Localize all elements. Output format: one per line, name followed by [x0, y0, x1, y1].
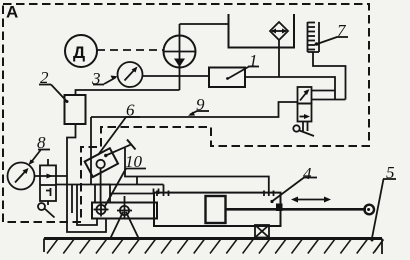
stylus 6 tilted box	[85, 140, 136, 178]
wire rect2 bottom down	[67, 124, 106, 232]
leader 9	[197, 110, 210, 112]
pivot with support	[117, 196, 132, 219]
wire to cylinder left port	[163, 185, 165, 197]
wire rect2 top to pump line	[76, 90, 180, 95]
relief actuator	[38, 201, 55, 218]
wire relief right to manifold	[56, 184, 164, 186]
leader 7	[337, 36, 349, 38]
gauge 3	[118, 62, 143, 87]
piston rod	[226, 208, 367, 211]
wire bar port fitting	[110, 189, 159, 195]
wire line9 drop	[90, 117, 92, 185]
wire stub drop	[71, 185, 73, 214]
wire pump to tank	[180, 23, 229, 25]
wire filter stem	[278, 40, 280, 77]
port ticks cylinder left	[157, 191, 169, 197]
wire valve right ports	[312, 90, 336, 92]
leader 1	[248, 66, 259, 68]
wire gauge3 to valve U1	[143, 75, 210, 77]
svg-text:4: 4	[303, 164, 312, 183]
valve V2 two-position	[298, 87, 312, 122]
support legs	[111, 212, 124, 238]
svg-text:Д: Д	[73, 43, 85, 62]
piston	[206, 196, 226, 223]
gauge 8	[8, 163, 35, 190]
leader 8	[38, 149, 50, 151]
filter F1	[270, 22, 288, 40]
wire unit1 right	[245, 77, 335, 100]
spring stack 7	[308, 22, 320, 52]
rod gland seal	[276, 204, 283, 212]
wire spring to valve	[313, 52, 346, 100]
support block	[255, 225, 269, 238]
follower housing	[95, 185, 110, 203]
motor M (Д)	[65, 35, 97, 67]
wire inner U	[77, 185, 97, 226]
ground hatching	[47, 240, 384, 254]
cylinder 4	[154, 193, 281, 226]
tank	[229, 14, 295, 48]
motion arrow	[291, 197, 331, 203]
rod end ball	[364, 205, 374, 215]
leader 2	[39, 84, 51, 86]
boundary A dashed enclosure	[3, 4, 369, 222]
leader 3	[93, 84, 104, 86]
relief valve at gauge 8	[40, 159, 56, 201]
roller 10 pivot	[94, 203, 109, 217]
wire stub	[136, 177, 138, 185]
wire line 9	[91, 102, 298, 117]
port ticks cylinder right	[264, 191, 274, 197]
leader 10	[126, 168, 147, 170]
wire pump vertical	[179, 24, 181, 90]
wire to cylinder right port	[125, 148, 269, 196]
wire gauge8 through relief	[35, 175, 68, 177]
leader 4	[304, 177, 318, 179]
leader 6	[126, 116, 141, 118]
wire stylus drop	[100, 168, 102, 205]
ground	[44, 239, 382, 255]
valve 2	[65, 95, 86, 124]
dashed shaft wire Д to pump	[97, 49, 164, 51]
control unit 1	[209, 68, 245, 88]
svg-text:A: A	[6, 3, 18, 22]
pump	[164, 36, 196, 68]
leader 5	[383, 178, 396, 180]
tracer bar	[92, 203, 157, 219]
valve V2 actuator	[293, 122, 314, 137]
